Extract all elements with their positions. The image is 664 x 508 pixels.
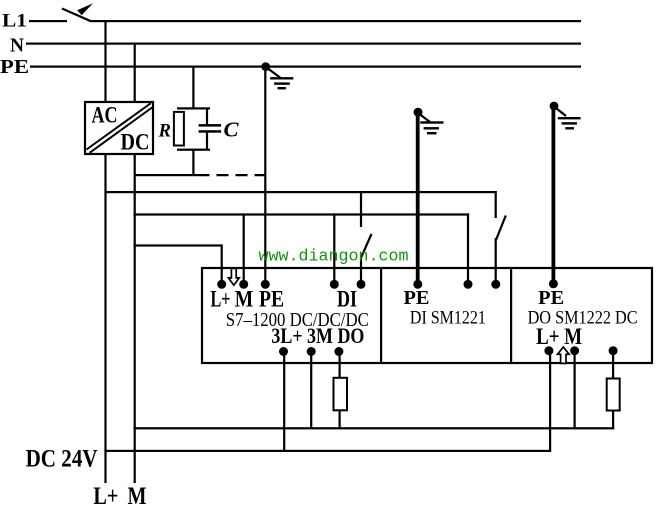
svg-text:C: C — [224, 117, 240, 141]
wire RC top bar — [177, 107, 210, 109]
switch S2 blade — [361, 234, 371, 257]
svg-text:PE: PE — [259, 287, 284, 312]
node S7 PE terminal — [261, 280, 270, 289]
power supply U1 diagonal 2 — [90, 107, 153, 153]
wire SM1222 PE thick conductor — [552, 106, 556, 284]
svg-text:AC: AC — [92, 103, 118, 128]
wire bus line 1 (L+ feed y=192) — [104, 191, 496, 193]
wire dashed link to PE drop — [198, 174, 267, 176]
switch S1 blade — [62, 9, 92, 22]
wire SM1222 M drop — [574, 351, 576, 430]
svg-text:M: M — [235, 287, 254, 312]
svg-text:L1: L1 — [2, 11, 27, 32]
node SM1222 PE terminal — [549, 279, 558, 288]
node SM1221 DI terminal 2 — [491, 280, 500, 289]
svg-text:DI: DI — [337, 287, 357, 312]
node S7 DO terminal — [334, 347, 343, 356]
wire load RL1 bottom stem — [339, 410, 341, 430]
wire M terminal drop — [243, 213, 245, 284]
node S7 M terminal — [239, 280, 248, 289]
module divider S7/SM1221 — [380, 268, 382, 363]
node S7 3L+ terminal — [279, 347, 288, 356]
power supply U1 AC/DC box — [85, 102, 153, 154]
svg-text:L+ M: L+ M — [536, 324, 582, 349]
wire 3L+ drop — [283, 351, 285, 452]
svg-text:PE: PE — [538, 288, 564, 309]
module divider SM1221/SM1222 — [510, 268, 512, 363]
wire M rail lower — [134, 153, 136, 483]
wire M rail upper — [134, 43, 136, 102]
node DO ground top dot — [550, 102, 559, 111]
ground earth at SM1221 — [420, 115, 444, 135]
node S7 L+ terminal — [217, 280, 226, 289]
resistor R — [174, 112, 184, 146]
wire L1 line right segment — [91, 20, 581, 22]
svg-text:PE: PE — [404, 288, 430, 309]
wire bus line 2 (M feed y=214.5) — [134, 213, 470, 215]
wire bottom L+ line — [104, 450, 551, 452]
svg-text:DI SM1221: DI SM1221 — [410, 307, 486, 328]
wire bus line 3 (to L+ terminal y=245.5) — [134, 244, 222, 246]
node PE junction — [261, 62, 270, 71]
svg-text:3L+ 3M DO: 3L+ 3M DO — [271, 323, 364, 348]
wire bottom M line — [134, 427, 615, 429]
wire N to RC link — [134, 174, 198, 176]
capacitor C bottom stem — [206, 133, 208, 151]
wire L1 line left segment — [29, 20, 67, 22]
svg-text:L+: L+ — [211, 287, 231, 312]
svg-text:www.diangon.com: www.diangon.com — [259, 248, 409, 267]
svg-text:DC 24V: DC 24V — [26, 446, 98, 473]
wire SM1221 PE thick conductor — [416, 112, 420, 284]
svg-text:PE: PE — [0, 56, 29, 78]
svg-text:N: N — [10, 34, 25, 56]
wire SM1222 L+ drop — [549, 351, 551, 452]
node S7 3M terminal — [307, 347, 316, 356]
node S7 DI2 terminal — [357, 280, 366, 289]
wire 3M drop — [310, 351, 312, 429]
switch S2 lower stub — [360, 254, 362, 284]
switch S3 lower stub — [495, 238, 497, 284]
switch S3 blade — [496, 216, 506, 241]
wire N line — [26, 43, 581, 45]
switch S1 arrow — [77, 3, 93, 15]
module outline (S7-1200 + SM1221 + SM1222) — [202, 268, 652, 363]
node SM1221 PE terminal — [413, 280, 422, 289]
switch S2 upper stub — [360, 191, 362, 227]
node SM1222 M terminal — [570, 346, 579, 355]
wire RC bottom bar — [177, 149, 210, 151]
wire L+ terminal drop — [221, 244, 223, 284]
wire SM1222 DO output drop — [612, 351, 614, 379]
wire PE drop to S7 PE terminal — [264, 67, 266, 285]
capacitor C plate 1 — [199, 124, 222, 127]
node SM1221 DI terminal 1 — [464, 280, 473, 289]
node SM1222 L+ terminal — [544, 346, 553, 355]
svg-text:M: M — [128, 483, 147, 508]
resistor load RL2 — [607, 379, 620, 411]
wire DI1 terminal drop — [333, 213, 335, 284]
ground earth at PE line — [267, 68, 294, 90]
capacitor C plate 2 — [199, 130, 222, 133]
wire DI3 terminal drop — [467, 213, 469, 284]
svg-text:L+: L+ — [93, 483, 118, 508]
wire L+ rail lower — [104, 153, 106, 483]
node S7 DI1 terminal — [330, 280, 339, 289]
svg-text:R: R — [158, 121, 171, 142]
wire PE line — [30, 66, 581, 68]
node DI ground top dot — [414, 108, 423, 117]
switch S3 upper stub — [495, 191, 497, 218]
wire L+ rail upper — [104, 21, 106, 102]
svg-text:DC: DC — [121, 129, 150, 154]
arrow open up arrow — [558, 347, 570, 363]
wire RC filter top stem — [192, 67, 194, 110]
ground earth at SM1222 — [557, 109, 581, 130]
resistor load RL1 — [334, 378, 348, 411]
arrow open down arrow — [228, 268, 239, 285]
capacitor C top stem — [206, 108, 208, 125]
node SM1222 DO terminal — [609, 346, 618, 355]
wire RC bottom stem — [192, 149, 194, 176]
power supply U1 diagonal 1 — [87, 103, 151, 149]
wire DO output drop — [339, 351, 341, 378]
wire load RL2 bottom stem — [612, 411, 614, 430]
